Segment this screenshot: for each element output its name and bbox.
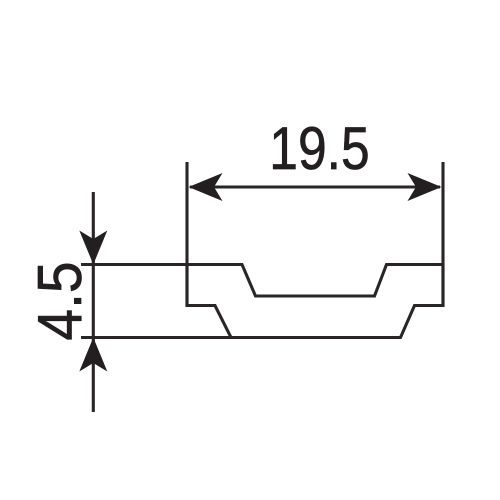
svg-text:19.5: 19.5 (269, 114, 369, 182)
dimension line 4.5 (92, 192, 95, 412)
dimension line 19.5 (190, 185, 440, 188)
arrowhead right (19.5) (408, 173, 442, 201)
profile outline (187, 265, 443, 338)
extension line top (4.5 dim) (81, 263, 188, 266)
arrowhead down (4.5 top) (79, 231, 107, 265)
extension line right (19.5 dim) (441, 162, 444, 307)
arrowhead up (4.5 bottom) (79, 338, 107, 372)
extension line left (19.5 dim) (185, 162, 188, 307)
arrowhead left (19.5) (189, 173, 223, 201)
svg-text:4.5: 4.5 (25, 261, 95, 340)
extension line bottom (4.5 dim) (81, 336, 232, 339)
